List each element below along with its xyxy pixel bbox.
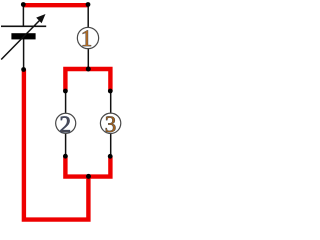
svg-text:2: 2 <box>59 112 71 137</box>
meter 1 circle <box>77 27 98 48</box>
wire lower parallel bar with branch stubs (red) <box>65 156 110 176</box>
node: lower bar junction <box>86 174 91 179</box>
svg-text:1: 1 <box>81 26 93 51</box>
node: branch 3 top <box>108 89 113 94</box>
variable capacitor C: adjustment arrow shaft <box>1 19 41 60</box>
node: below capacitor <box>21 67 26 72</box>
meter 3 circle <box>100 113 120 133</box>
node: branch 2 top <box>63 89 68 94</box>
wire meter 2 top lead <box>65 91 67 114</box>
meter 2 circle <box>56 113 76 133</box>
variable capacitor C: adjustment arrow head <box>36 14 45 23</box>
wire main loop: left side down, bottom, up to parallel junction (red) <box>24 70 89 220</box>
node: branch 3 bottom <box>108 154 113 159</box>
svg-text:3: 3 <box>105 112 117 137</box>
wire capacitor top lead <box>22 4 24 26</box>
wire top horizontal (red) <box>23 3 88 7</box>
wire meter 1 top lead <box>87 4 89 27</box>
node: upper bar meter1 junction <box>86 67 91 72</box>
variable capacitor C: bottom plate (thick) <box>11 33 35 39</box>
wire capacitor bottom lead <box>23 39 25 70</box>
wire upper parallel bar with branch stubs (red) <box>65 69 110 91</box>
wire meter 1 bottom lead <box>87 49 89 69</box>
node: top right junction <box>86 2 91 7</box>
node: top left junction <box>21 2 26 7</box>
wire meter 3 bottom lead <box>110 133 112 156</box>
node: branch 2 bottom <box>63 154 68 159</box>
variable capacitor C: top plate <box>1 26 46 28</box>
wire meter 2 bottom lead <box>65 133 67 156</box>
wire meter 3 top lead <box>110 91 112 114</box>
